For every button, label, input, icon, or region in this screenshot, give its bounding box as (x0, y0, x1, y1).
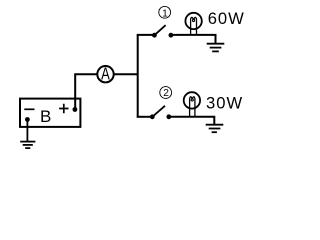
ground (lamp 1) (207, 44, 225, 52)
switch 1 blade (154, 25, 165, 35)
bus vertical wire (137, 35, 139, 117)
ground (battery) (20, 142, 35, 149)
label circled 1 (159, 6, 171, 18)
lamp L2 30W (184, 92, 200, 108)
switch 1 left contact dot (152, 33, 157, 38)
label circled 2 (160, 87, 172, 99)
battery positive terminal plus sign (59, 104, 68, 113)
lamp L1 60W (185, 13, 201, 29)
svg-text:A: A (101, 65, 110, 84)
ground (lamp 2) (206, 125, 224, 133)
wire from battery negative to ground (26, 120, 28, 142)
wire switch 2 to lamp 2 and ground (169, 117, 215, 125)
wire from battery positive up to ammeter (75, 74, 96, 109)
svg-text:1: 1 (162, 8, 168, 19)
wire top branch to switch 1 (137, 34, 155, 36)
wire bottom branch to switch 2 (137, 116, 153, 118)
svg-text:2: 2 (163, 88, 169, 99)
wire from ammeter to bus (115, 73, 138, 75)
switch 2 blade (152, 106, 165, 117)
svg-text:B: B (40, 107, 51, 126)
switch 2 left contact dot (150, 114, 155, 119)
svg-text:30W: 30W (206, 94, 243, 113)
wire switch 1 to lamp 1 and ground (171, 35, 216, 44)
battery negative terminal minus sign (24, 108, 34, 110)
battery B box (20, 99, 80, 127)
battery negative terminal dot (25, 117, 30, 122)
switch 1 right contact dot (169, 33, 174, 38)
battery positive terminal dot (73, 107, 78, 112)
switch 2 right contact dot (166, 114, 171, 119)
ammeter A (97, 66, 113, 82)
svg-text:60W: 60W (208, 9, 245, 28)
